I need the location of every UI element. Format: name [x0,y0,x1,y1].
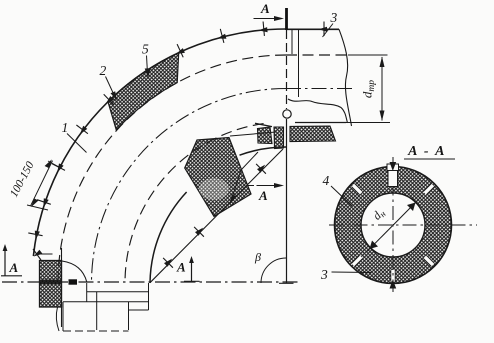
section line vertical [286,30,288,109]
svg-text:β: β [254,250,261,264]
outer insulation surface, straight pipe top edge [286,28,339,30]
angle beta arc [261,258,286,283]
svg-text:А: А [260,1,270,16]
svg-text:А: А [9,260,19,275]
flange bottom step [129,309,149,311]
bottom centerline arrow [390,280,397,289]
straight pipe bottom edge y=122.5 [295,122,346,124]
svg-text:3: 3 [320,267,328,282]
insulation ring hatch [335,167,452,284]
pipe inner-side surface arc R161 (dashed) [125,124,264,283]
lower end inner fillet curve [62,261,87,282]
top centerline arrow [390,162,397,171]
flange body line 2 [63,301,149,303]
arrow A top [254,18,281,20]
fastening band slot 315 deg [352,184,363,195]
section line A-A thick top stroke [285,8,288,30]
flange dashed bottom [63,330,129,332]
fastening band slot 45 deg [423,184,434,195]
dimension d_tr extension top [348,54,388,56]
arrow A mid right [248,185,280,187]
inner circle of section (pipe) [361,193,425,257]
svg-text:4: 4 [323,173,330,188]
flange vertical x=96.7 [96,292,98,330]
lower end insulation section hatch [40,261,62,308]
section line bottom foot tick [279,282,294,284]
section vertical centerline [392,157,394,292]
pipe end dark band on axis [39,280,62,285]
small circle node on section line [283,110,291,118]
seam line mark 2 [194,227,204,237]
insulation segment hatch on outer bend (labels 2,5) [108,53,179,130]
straight pipe top hidden line y=55 [286,54,347,56]
insulation hatch bar at top joint, right part [290,126,336,142]
insulation hatch bar at top joint, left part [258,127,273,144]
insulation joint second short line [291,30,293,54]
arrow at mid segment lower corner [230,152,258,204]
insulation hatch bar lobe below [274,127,284,149]
outer circle of section [335,167,452,284]
insulation segment hatch at mid seam [185,138,251,217]
dimension 100-150 along curve [31,161,53,206]
flange vertical x=148.5 [148,283,150,310]
fastening band slot 180 deg [391,270,395,282]
svg-text:А - А: А - А [407,144,446,159]
straight pipe axis y=88.5 [286,88,354,90]
flange body line 1 [87,291,149,293]
top band buckle rect [388,169,398,187]
svg-text:1: 1 [62,120,69,135]
pipe outer surface arc R228 (hidden, dashed) [58,55,286,283]
flange vertical x=86.7 [86,283,88,302]
seam line mark 3 [256,164,266,174]
inner insulation surface arc R136 lower segment [150,192,187,283]
straight pipe break wavy edge (right end) [339,29,352,126]
svg-text:А: А [258,188,268,203]
inner insulation surface arc R136 upper segment [240,147,287,155]
svg-text:5: 5 [142,42,149,57]
flange left lower edge [62,302,64,331]
seam line at 45 deg [150,149,283,283]
horizontal axis centerline of lower end [2,281,300,283]
seam line mark 1 [163,258,173,268]
section horizontal centerline [329,224,477,226]
svg-text:3: 3 [330,10,338,25]
weld black square on axis [69,279,78,284]
torn insulation edge over pipe [288,99,348,123]
svg-text:А: А [176,260,186,275]
lower end right edge line [61,248,63,327]
view arrow A lower left end [4,247,6,276]
ticks on outer arc [263,22,264,36]
dimension d_tr line [381,57,383,121]
tick with arrow at curve end near hatch [33,249,41,260]
pipe inner-side surface solid end near tangent [255,123,272,126]
flange outer left curve [56,307,59,331]
fastening band slot 225 deg [352,255,363,266]
inner diameter dimension line [367,201,418,252]
tick on straight pipe [323,22,325,37]
view arrow A mid bottom [191,259,193,281]
connector line from mid segment to upper joint [230,132,276,136]
pipe axis centerline arc R194.5 (dash-dot) [92,89,287,284]
flange vertical x=128.5 [128,302,130,330]
dimension d_tr extension bottom [346,122,390,124]
svg-text:2: 2 [100,63,107,78]
worn light spot on segment [199,178,229,200]
outer insulation surface arc R254 [33,29,286,256]
insulation joint vertical line [298,30,300,97]
fastening band slot 135 deg [423,255,434,266]
